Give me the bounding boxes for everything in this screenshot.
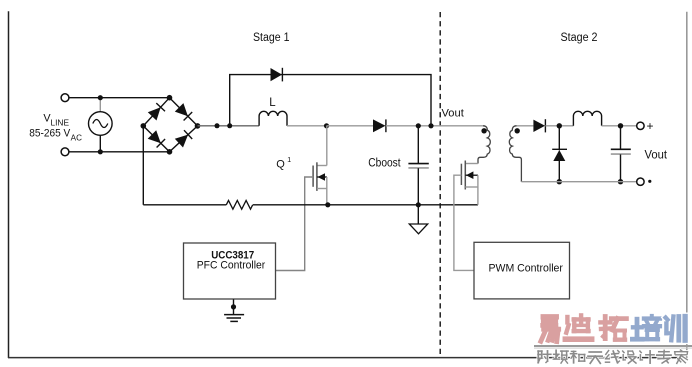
node dot bridge top	[167, 95, 173, 101]
wire bottom input line	[69, 151, 170, 153]
watermark subtitle 射频和天线设计专家	[538, 350, 688, 363]
polarity dot primary	[481, 128, 486, 133]
wire main rail: bridge right to L	[198, 125, 260, 127]
node dot rail a	[215, 123, 220, 128]
ground (open triangle) below Cboost	[409, 205, 427, 234]
node dot AC bottom	[98, 149, 103, 154]
bridge diode D2 (top to right)	[175, 103, 192, 120]
PWM controller box	[474, 242, 570, 299]
bridge rectifier frame	[143, 98, 197, 152]
inductor L	[259, 111, 287, 125]
output terminal -	[637, 178, 644, 185]
UCC3817 controller box	[184, 243, 276, 299]
return rail with sense resistor	[143, 200, 478, 209]
stage boundary dashed line	[439, 12, 441, 358]
MOSFET Q2	[461, 161, 478, 205]
node dot cap bottom	[618, 179, 623, 184]
transformer T1 secondary winding	[509, 126, 521, 182]
wire Q1 gate to UCC3817	[276, 177, 313, 271]
node dot freewheel bottom	[557, 179, 562, 184]
input terminal bottom	[61, 148, 69, 156]
wire bridge left vertex down to return rail	[142, 126, 144, 205]
bridge diode D3 (left to bottom)	[148, 130, 165, 147]
output rectifier diode	[533, 119, 545, 132]
bridge diode D1 (left to top)	[148, 103, 165, 120]
wire diode to freewheel node	[545, 125, 573, 127]
Cboost capacitor	[408, 126, 428, 205]
label -	[648, 180, 651, 183]
wire top input line	[69, 97, 170, 99]
input terminal top	[61, 94, 69, 102]
wire rail diode to Vout node	[386, 125, 441, 127]
wire rail L to Q1 drain node	[287, 125, 327, 127]
wire inductor to cap node	[602, 125, 637, 127]
node dot bridge left	[141, 123, 147, 129]
ground at UCC3817	[224, 299, 244, 321]
node dot cap top	[618, 123, 623, 128]
node dot bridge bottom	[167, 149, 173, 155]
node dot Cboost tap	[416, 123, 421, 128]
watermark title glyphs	[541, 315, 685, 341]
node dot freewheel top	[557, 123, 562, 128]
output filter inductor	[573, 111, 601, 126]
node dot Cboost bottom	[416, 202, 421, 207]
bypass diode	[271, 68, 283, 82]
node dot rail b (bypass tap)	[227, 123, 232, 128]
node dot Q1 drain	[324, 123, 329, 128]
AC source V1	[89, 98, 113, 152]
wire secondary top to rectifier diode	[517, 125, 534, 127]
output return wire	[521, 181, 636, 183]
wire rail to transformer primary	[441, 125, 483, 127]
boost diode	[373, 119, 386, 132]
node dot Q1 source on rail	[325, 202, 330, 207]
node dot bypass return	[428, 123, 433, 128]
label VLINE 85-265 VAC	[29, 113, 82, 143]
wire bypass branch up and across	[230, 75, 431, 126]
watermark rule	[534, 345, 692, 347]
wire Q2 gate to PWM controller	[454, 175, 474, 270]
wire rail Q1 node to boost diode	[327, 125, 374, 127]
output terminal +	[637, 122, 644, 129]
polarity dot secondary	[515, 128, 520, 133]
node dot bridge right	[195, 123, 201, 129]
MOSFET Q1	[313, 126, 327, 205]
freewheel diode (pointing up)	[552, 126, 567, 182]
output capacitor	[611, 126, 631, 182]
node dot AC top	[98, 95, 103, 100]
bridge diode D4 (bottom to right)	[175, 130, 192, 147]
transformer T1 primary winding	[478, 126, 490, 164]
